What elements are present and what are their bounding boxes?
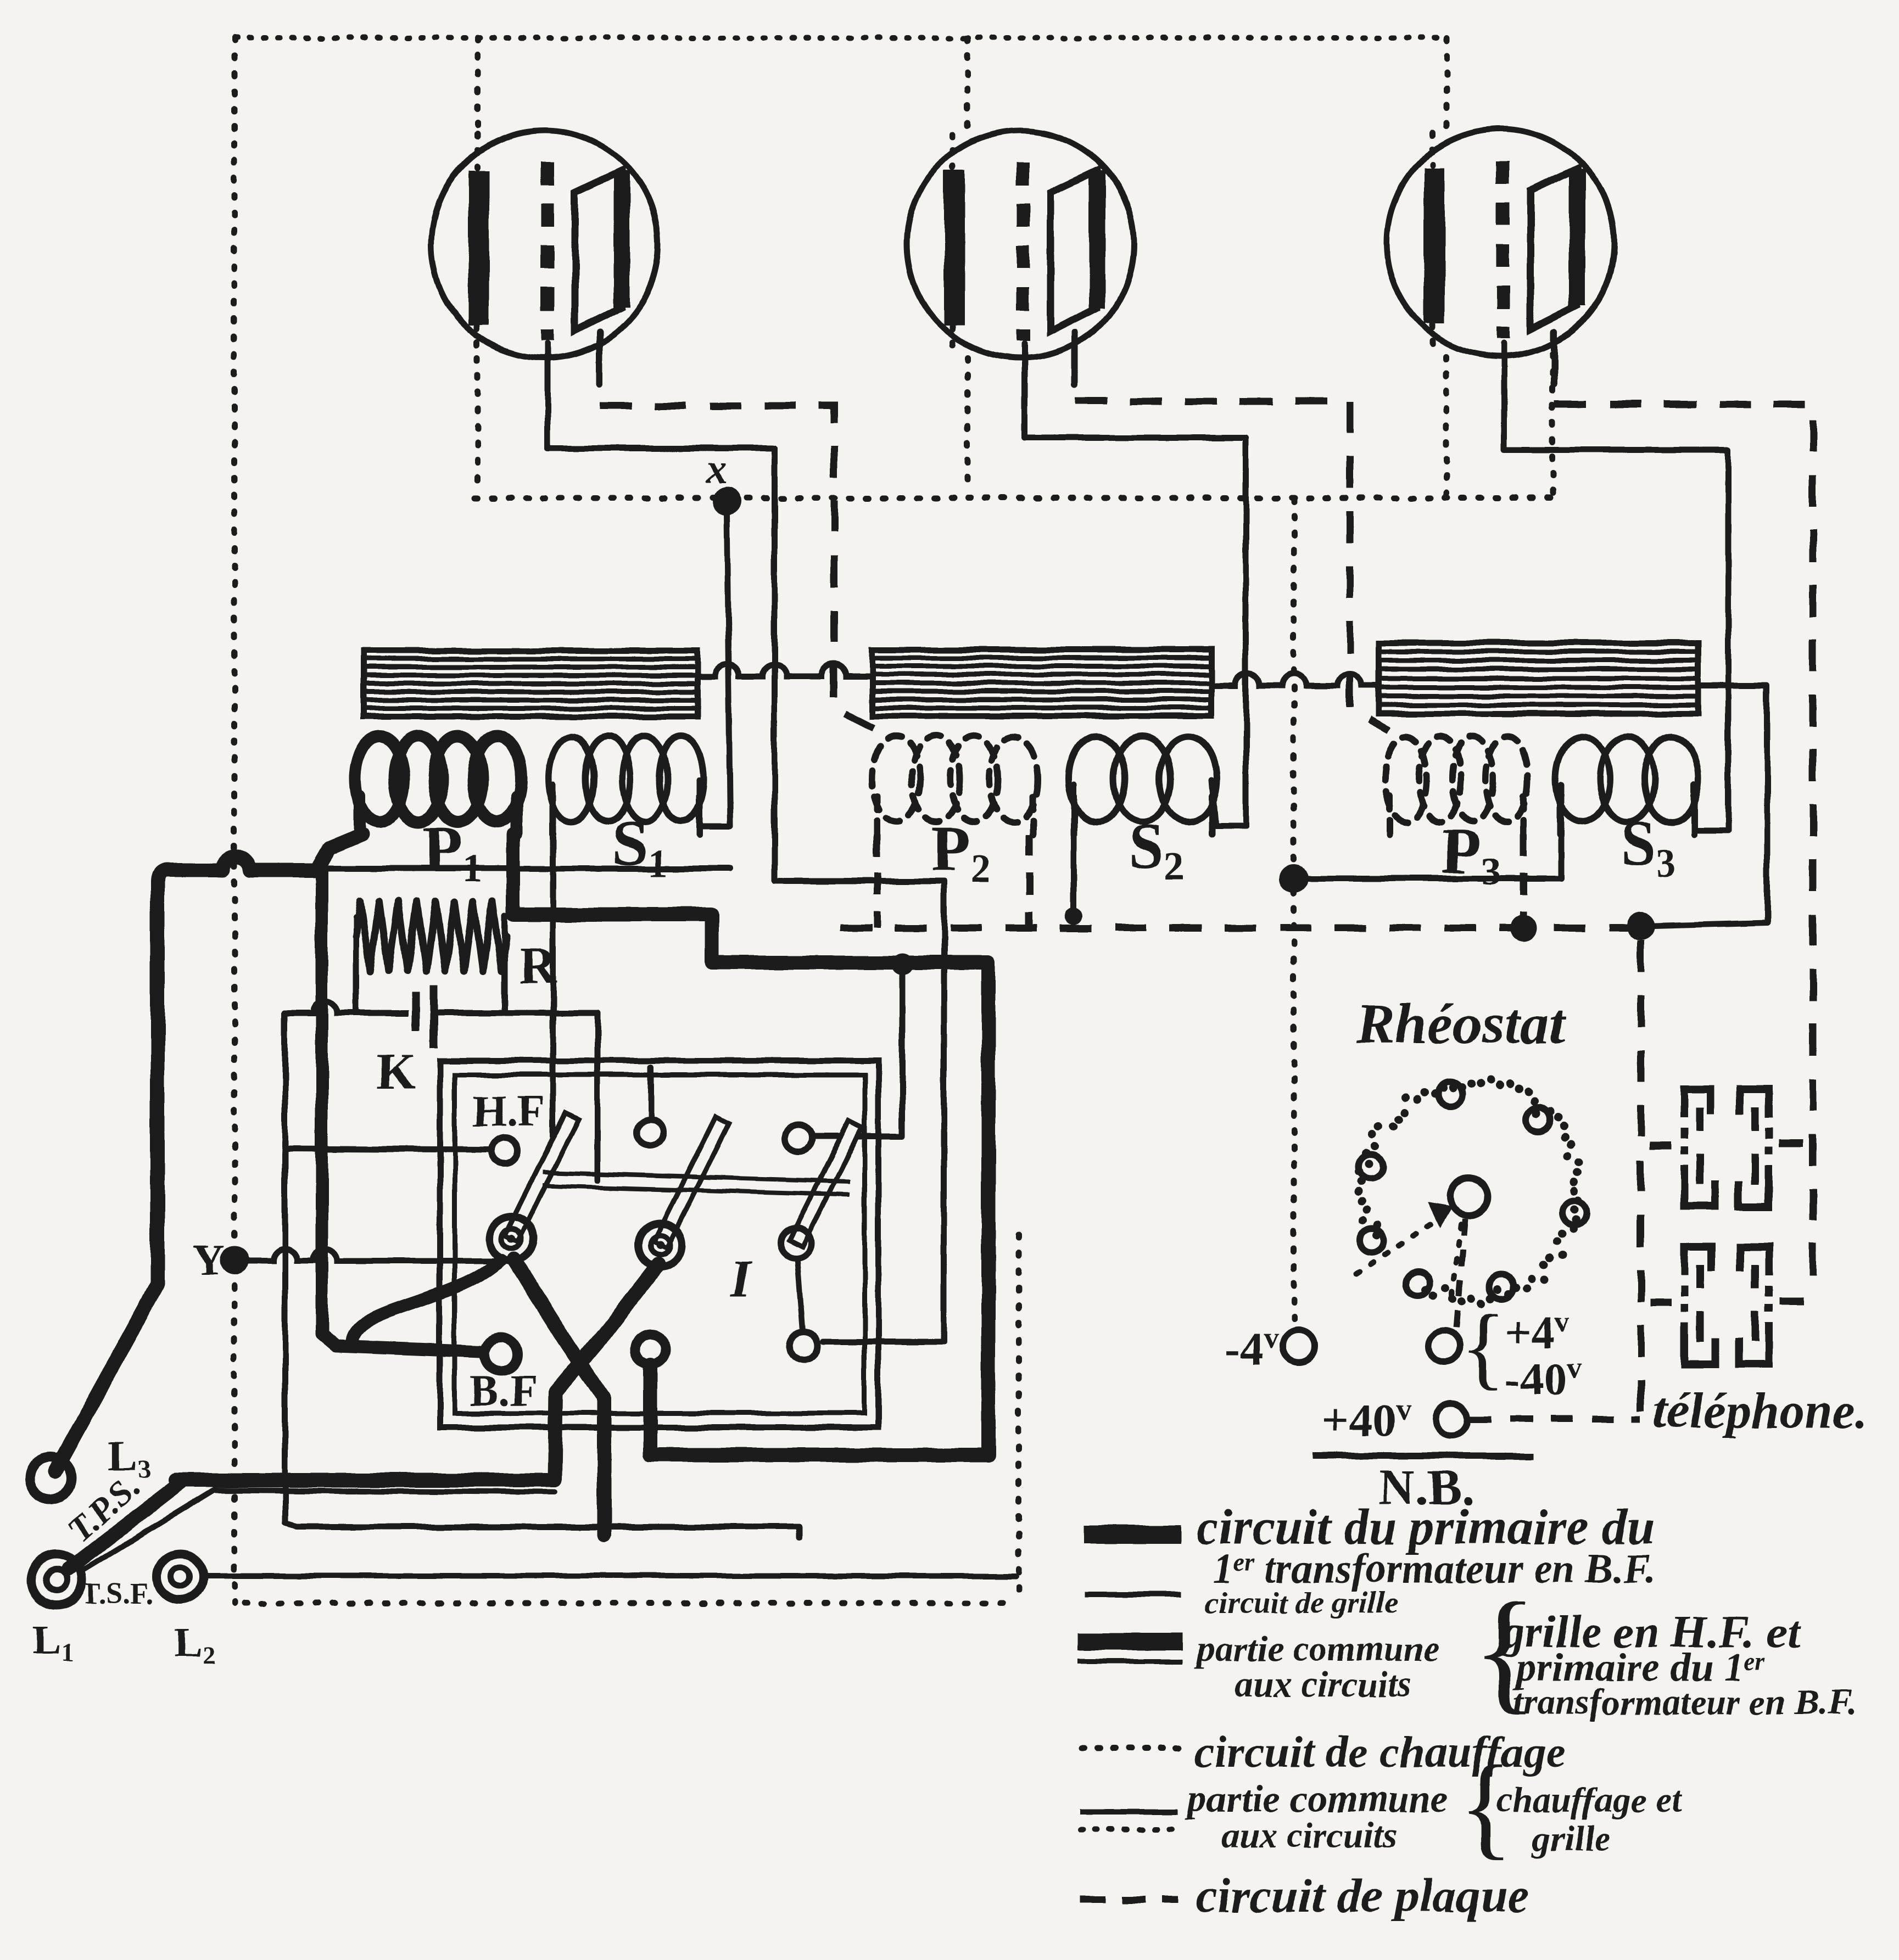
wire: T2-T3 core link <box>1211 674 1379 686</box>
wire: V3 filament dotted lead down <box>1444 357 1450 494</box>
svg-text:I: I <box>730 1249 752 1307</box>
svg-text:circuit de grille: circuit de grille <box>1205 1586 1399 1620</box>
junction dot plate rail right <box>1627 912 1655 940</box>
wire: thick BF feed vertical <box>322 872 481 1352</box>
pivot 2 rings <box>638 1223 682 1267</box>
wire: plate dashed rail <box>840 925 1641 932</box>
svg-text:T.S.F.: T.S.F. <box>81 1577 153 1610</box>
legend thick bar 1 <box>1085 1525 1181 1544</box>
wire: V2 plate dashed to P3 <box>1075 401 1389 730</box>
wire: thick P1 right to switch frame <box>513 835 988 1455</box>
lever 1 rod <box>505 1112 579 1242</box>
triode tube V3 <box>1387 129 1614 356</box>
lever tie bar <box>543 1173 850 1195</box>
wire: bottom dotted rail <box>244 1600 1016 1606</box>
wire: T3 core to plate rail <box>1645 686 1767 926</box>
svg-text:1er transformateur en B.F.: 1er transformateur en B.F. <box>1213 1546 1655 1592</box>
wire: K right corner into box <box>439 1013 597 1180</box>
triode tube V2 <box>907 131 1134 358</box>
transformer T2 core <box>872 649 1211 716</box>
terminal -4V circle <box>1283 1330 1315 1362</box>
terminal L1 <box>31 1554 82 1606</box>
svg-text:H.F: H.F <box>472 1087 544 1135</box>
wire: S1 left lead down <box>550 785 556 1164</box>
svg-text:partie commune: partie commune <box>1184 1778 1448 1821</box>
wire: heating dotted rail mid <box>474 495 1552 501</box>
wire: V1 filament dotted lead down <box>475 358 481 494</box>
legend thin+dotted 5 <box>1080 1809 1178 1815</box>
node Y dot <box>220 1246 249 1275</box>
capacitor K <box>416 985 434 1048</box>
contact bottom right <box>790 1332 818 1360</box>
legend dashed 6 <box>1081 1896 1178 1903</box>
svg-text:chauffage et: chauffage et <box>1496 1780 1683 1820</box>
coil S2 (secondary 2) <box>1068 736 1217 835</box>
svg-text:circuit de plaque: circuit de plaque <box>1196 1869 1529 1923</box>
wire: dotted drop to tube V3 filament <box>1444 38 1450 132</box>
node X junction dot <box>713 487 741 516</box>
wire: top heating dotted rail <box>235 35 1444 41</box>
wire: V2 filament dotted lead down <box>965 358 971 494</box>
contact BF <box>484 1338 517 1371</box>
junction blob on thick wire <box>891 953 913 975</box>
wire: dotted rise right of box <box>1016 1235 1022 1603</box>
wire: V1 grid lead down-right <box>548 343 774 449</box>
wire: V1 grid jog to switch <box>774 881 944 1342</box>
svg-text:{: { <box>1461 1295 1506 1398</box>
svg-text:téléphone.: téléphone. <box>1653 1382 1868 1438</box>
wire: thick pivot2 tail <box>555 1264 658 1480</box>
wire: V1 grid vertical to jog <box>772 449 778 881</box>
wire: R left lead <box>353 917 359 1013</box>
wire: T1-T2 core link <box>697 664 872 676</box>
wire: rheostat knob dashed to +4V <box>1455 1219 1465 1334</box>
rheostat arrow <box>1356 1220 1461 1296</box>
wire: thick L1 diagonal <box>69 1482 181 1569</box>
wire: S3 left lead to node <box>1296 785 1561 878</box>
legend rule <box>1312 1453 1534 1459</box>
wire: V3 grid lead <box>1504 343 1728 830</box>
contact top middle <box>636 1119 663 1145</box>
wire: dotted drop to tube V1 filament <box>475 38 481 132</box>
triode tube V1 <box>431 131 658 358</box>
coil S1 (secondary 1) <box>549 736 704 835</box>
contact bottom middle <box>635 1334 666 1365</box>
legend thick+thin 3 <box>1077 1642 1183 1661</box>
terminal L3 <box>30 1457 71 1499</box>
wire: V3 right heater dotted lead <box>1550 354 1556 494</box>
wire: grid bus above R <box>324 866 730 872</box>
svg-text:Rhéostat: Rhéostat <box>1356 992 1566 1056</box>
lever 3 rod <box>790 1121 862 1246</box>
wire: P3 right dashed drop <box>1520 835 1527 928</box>
wire: V2 grid lead <box>1024 343 1246 826</box>
lever 3 end ring <box>781 1228 812 1258</box>
switch box outer frame <box>440 1061 878 1427</box>
wire: thin L2 line <box>203 1573 1016 1578</box>
wire: thin L1 diagonal <box>81 1490 214 1571</box>
wire: S2 left lead down <box>1071 785 1077 916</box>
rheostat stud contacts <box>1359 1082 1587 1299</box>
rheostat knob <box>1450 1178 1488 1216</box>
wire: thick pivot1 tail <box>513 1259 604 1535</box>
wire: dotted drop to tube V2 filament <box>965 38 971 132</box>
wire: thin line under bus <box>214 1490 555 1492</box>
wire: P2 left dashed drop <box>874 835 881 928</box>
junction dot on plate rail <box>1510 915 1537 941</box>
terminal +40V circle <box>1436 1403 1468 1435</box>
terminal L2 <box>157 1554 203 1600</box>
telephone jack J2 <box>1684 1247 1769 1364</box>
wire: HF line left vertical <box>285 1013 799 1538</box>
svg-text:Y: Y <box>193 1236 225 1285</box>
wire: V3 plate lead <box>1551 332 1557 384</box>
wire: V3 plate dashed to telephone <box>1554 404 1813 1294</box>
wire: V2 plate lead <box>1072 332 1079 384</box>
pivot 1 rings <box>489 1217 533 1261</box>
legend dotted 4 <box>1081 1746 1181 1752</box>
terminal +4/-40 circle <box>1428 1330 1460 1362</box>
svg-text:aux circuits: aux circuits <box>1221 1816 1398 1856</box>
wire: dashed drop to telephone column <box>1638 940 1645 1415</box>
svg-text:grille: grille <box>1531 1818 1611 1858</box>
coil P1 (primary 1, thick) <box>355 736 521 835</box>
telephone jack J1 <box>1684 1089 1769 1207</box>
wire: HF feed horizontal <box>285 1149 489 1150</box>
svg-text:aux circuits: aux circuits <box>1236 1665 1412 1705</box>
contact top right <box>785 1125 812 1151</box>
legend thin line 2 <box>1085 1592 1181 1598</box>
wire: thick P1 left to L3 <box>55 835 362 1471</box>
transformer T1 core <box>364 651 697 716</box>
svg-text:transformateur en B.F.: transformateur en B.F. <box>1513 1682 1857 1722</box>
wire: jack2 stubs <box>1650 1301 1803 1303</box>
coil P3 (primary 3, dashed) <box>1385 736 1528 835</box>
wire: R right drop <box>502 916 508 1013</box>
wire: P2 right dashed drop <box>1026 835 1033 928</box>
transformer T3 core <box>1379 643 1698 714</box>
switch box inner frame <box>455 1075 864 1413</box>
junction blob S2 <box>1065 907 1082 925</box>
wire: Y line to switch <box>247 1248 497 1261</box>
wire: X node to S1 right end <box>700 513 730 826</box>
wire: thick BF claw <box>351 1260 501 1342</box>
wire: left dotted vertical (heating) <box>232 38 238 1603</box>
contact HF <box>491 1138 518 1164</box>
wire: V1 plate lead <box>596 332 603 384</box>
wire: K node line <box>285 1001 409 1013</box>
wire: lever3 ring to contact <box>797 1258 803 1331</box>
wire: +40V dashed to telephone <box>1470 1416 1641 1423</box>
coil P2 (primary 2, dashed) <box>872 736 1038 835</box>
rheostat dotted ring <box>1354 1076 1584 1308</box>
wire: V1 plate dashed to P2 <box>600 406 877 730</box>
junction dot heater column <box>1280 865 1308 893</box>
svg-text:x: x <box>705 445 727 492</box>
wire: heater dotted column to -4V <box>1291 500 1297 1329</box>
wire: thick bottom bus <box>176 1473 555 1487</box>
wire: jack1 stubs <box>1650 1143 1803 1145</box>
wire: feed to top-right contact <box>814 966 902 1136</box>
lever 2 rod <box>654 1117 729 1248</box>
svg-text:K: K <box>377 1043 416 1099</box>
resistor R <box>356 901 506 971</box>
svg-text:partie commune: partie commune <box>1194 1629 1440 1669</box>
coil S3 (secondary 3) <box>1555 736 1699 835</box>
wire: stub to top middle contact <box>648 1067 654 1118</box>
